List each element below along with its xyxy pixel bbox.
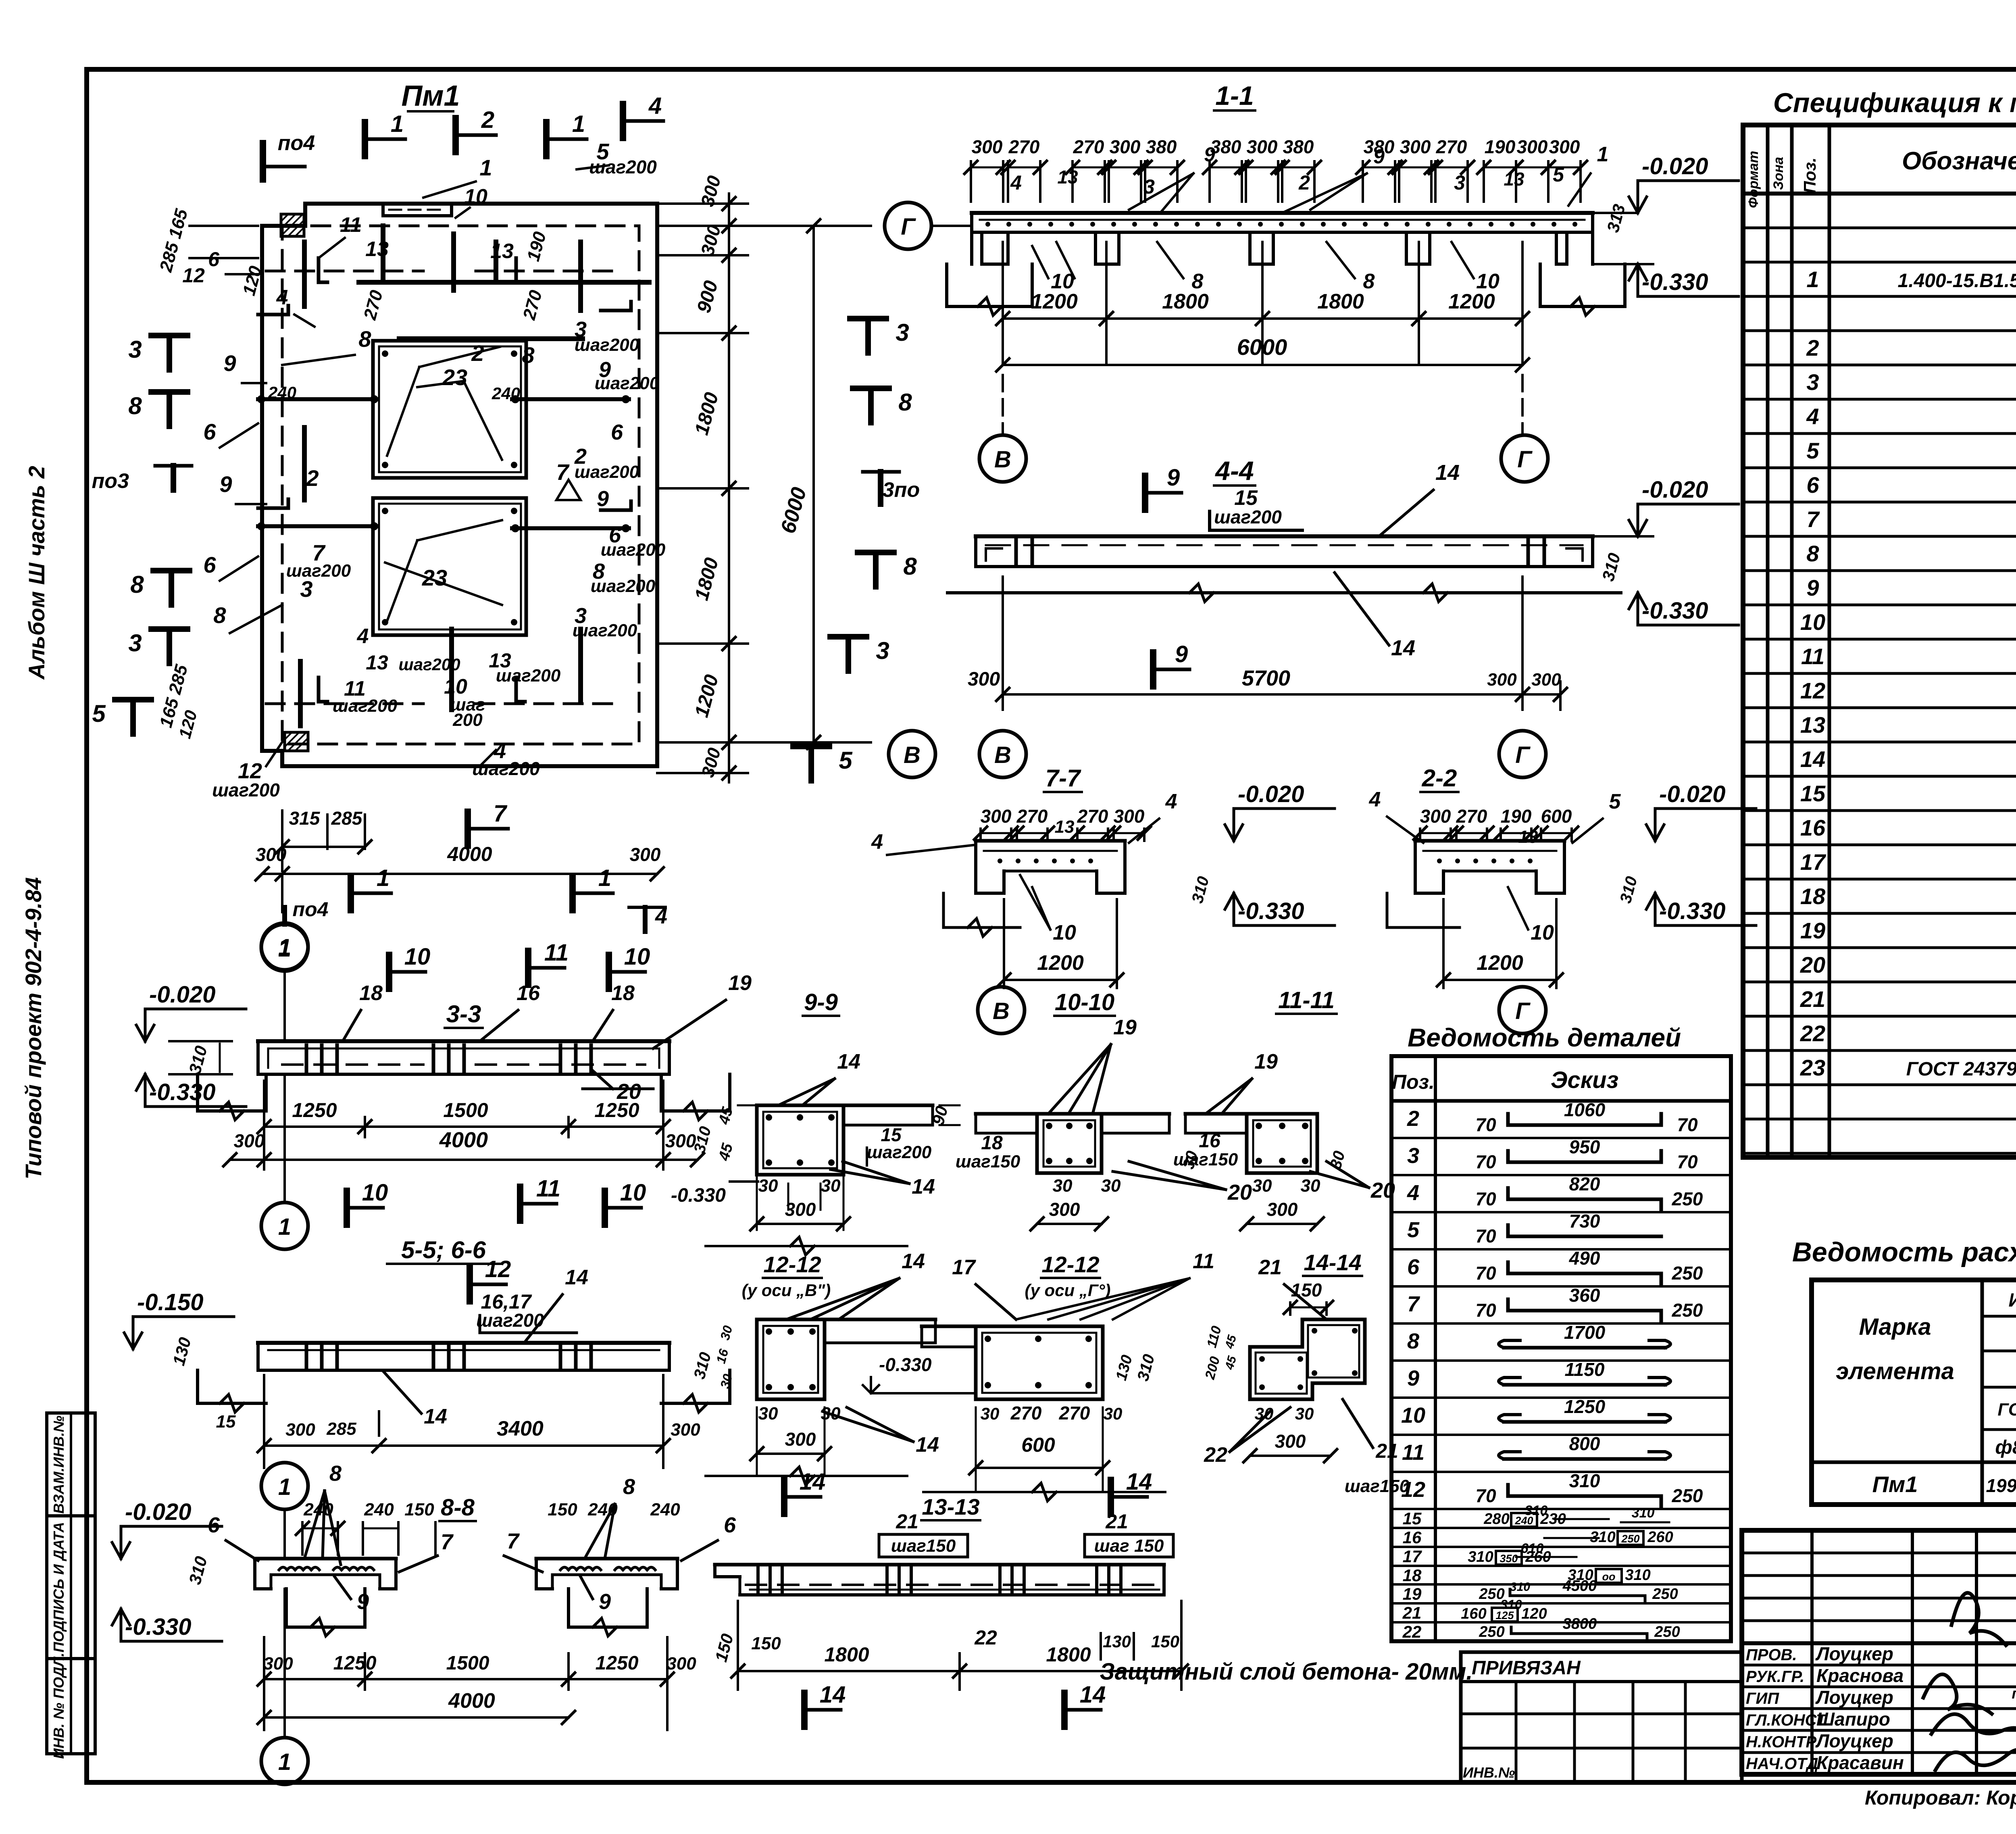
svg-text:3: 3 [1407,1144,1419,1168]
svg-text:1060: 1060 [1564,1099,1606,1120]
svg-text:5: 5 [1609,790,1621,813]
svg-text:ГЛ.КОНСТ: ГЛ.КОНСТ [1746,1711,1827,1729]
svg-text:11: 11 [544,940,569,966]
svg-text:Лоуцкер: Лоуцкер [1815,1643,1893,1664]
svg-text:Г: Г [1515,742,1531,768]
svg-text:13: 13 [1800,712,1825,738]
svg-text:3400: 3400 [497,1417,544,1440]
svg-text:22: 22 [1204,1443,1227,1467]
svg-text:10: 10 [362,1180,388,1206]
svg-text:ПРИВЯЗАН: ПРИВЯЗАН [1472,1657,1581,1679]
svg-text:шаг150: шаг150 [891,1536,956,1556]
svg-text:300: 300 [981,806,1012,827]
svg-text:315: 315 [289,808,321,829]
svg-text:по4: по4 [293,898,329,921]
svg-text:16: 16 [1403,1528,1422,1547]
svg-text:шаг200: шаг200 [286,561,351,581]
svg-text:300: 300 [234,1130,265,1151]
svg-text:6: 6 [611,420,623,444]
svg-text:13: 13 [366,651,388,674]
svg-text:шаг200: шаг200 [575,462,639,482]
svg-text:15: 15 [216,1412,236,1432]
svg-text:310: 310 [1510,1580,1530,1594]
svg-text:14-14: 14-14 [1304,1250,1361,1275]
svg-text:1: 1 [1806,267,1819,292]
svg-text:10: 10 [624,944,650,970]
svg-text:В: В [993,998,1010,1024]
svg-text:10: 10 [1401,1403,1425,1428]
svg-text:200: 200 [452,710,483,730]
svg-text:270: 270 [1456,806,1487,827]
svg-text:4000: 4000 [439,1128,488,1152]
svg-text:19: 19 [1403,1584,1422,1603]
svg-text:8: 8 [329,1461,342,1486]
svg-text:5: 5 [1806,438,1819,463]
svg-text:380: 380 [1283,136,1314,157]
svg-text:285: 285 [326,1419,356,1439]
svg-text:шаг200: шаг200 [1214,506,1282,527]
svg-text:13: 13 [1055,817,1075,837]
svg-text:3: 3 [300,576,312,602]
svg-text:-0.020: -0.020 [1659,781,1725,807]
svg-text:310: 310 [1625,1567,1650,1584]
svg-text:350: 350 [1500,1553,1518,1565]
svg-text:(у оси „Г°): (у оси „Г°) [1025,1281,1111,1300]
svg-text:300: 300 [1275,1431,1306,1452]
svg-text:шаг200: шаг200 [333,696,398,716]
svg-text:70: 70 [1475,1263,1496,1284]
svg-text:19: 19 [728,971,752,995]
svg-text:17: 17 [1403,1547,1422,1566]
svg-text:11: 11 [1193,1250,1214,1273]
svg-text:1800: 1800 [1317,290,1364,313]
svg-text:5: 5 [1407,1218,1420,1242]
svg-text:10: 10 [1053,921,1076,944]
svg-text:21: 21 [1800,986,1825,1012]
svg-text:8: 8 [898,389,912,416]
svg-text:300: 300 [285,1420,315,1440]
svg-text:шаг 150: шаг 150 [1094,1536,1164,1556]
svg-text:14: 14 [837,1050,860,1073]
svg-text:70: 70 [1677,1114,1698,1135]
svg-text:Поз.: Поз. [1800,158,1819,194]
svg-text:820: 820 [1569,1173,1600,1194]
svg-text:9: 9 [1204,143,1215,166]
svg-text:Типовой проект 902-4-9.84: Типовой проект 902-4-9.84 [21,877,46,1179]
svg-text:6: 6 [1806,472,1819,498]
svg-text:шаг200: шаг200 [476,1310,544,1331]
svg-text:260: 260 [1647,1529,1673,1546]
svg-text:Лоуцкер: Лоуцкер [1815,1687,1893,1708]
svg-text:16: 16 [1199,1130,1220,1152]
svg-text:190: 190 [1485,136,1516,157]
svg-text:300: 300 [1110,136,1141,157]
svg-text:10: 10 [620,1180,646,1206]
svg-text:490: 490 [1569,1248,1600,1269]
svg-text:30: 30 [1104,1404,1123,1423]
svg-text:14: 14 [1126,1469,1152,1495]
svg-text:В: В [994,446,1011,473]
svg-text:шаг200: шаг200 [398,655,460,674]
svg-text:Изделия арматурные: Изделия арматурные [2009,1289,2016,1311]
svg-text:2: 2 [471,340,484,366]
svg-text:-0.020: -0.020 [125,1499,191,1525]
svg-text:Лоуцкер: Лоуцкер [1815,1730,1893,1751]
svg-text:4: 4 [1369,788,1381,811]
svg-text:8: 8 [522,342,535,368]
svg-text:30: 30 [821,1176,841,1196]
svg-text:160: 160 [1461,1605,1486,1622]
svg-text:12: 12 [485,1256,511,1282]
svg-text:ПРОВ.: ПРОВ. [1746,1646,1797,1664]
svg-text:Г: Г [1515,998,1531,1024]
svg-text:4000: 4000 [448,1689,495,1713]
svg-text:250: 250 [1672,1188,1703,1209]
svg-text:1: 1 [598,865,611,891]
svg-text:2: 2 [1407,1107,1419,1131]
svg-text:(у оси „В"): (у оси „В") [742,1281,831,1300]
svg-text:2: 2 [481,107,494,133]
svg-text:30: 30 [1252,1176,1272,1196]
svg-text:Ведомость расхода стали на э: Ведомость расхода стали на элемент, кГ [1792,1237,2016,1267]
svg-text:11: 11 [1402,1440,1425,1465]
svg-text:3: 3 [1806,369,1819,395]
svg-text:-0.330: -0.330 [1642,598,1708,624]
svg-text:8: 8 [1363,270,1375,293]
svg-text:30: 30 [758,1176,778,1196]
svg-text:элемента: элемента [1836,1358,1954,1384]
svg-text:1250: 1250 [292,1099,337,1121]
svg-text:20: 20 [1370,1178,1395,1203]
svg-text:300: 300 [263,1654,293,1674]
svg-text:13: 13 [1057,167,1078,188]
svg-text:4: 4 [648,93,662,119]
svg-text:8: 8 [1806,541,1819,566]
svg-text:7-7: 7-7 [1045,765,1081,792]
svg-text:300: 300 [1400,136,1431,157]
svg-text:23: 23 [1800,1055,1825,1080]
svg-text:130: 130 [1103,1632,1131,1651]
svg-text:14: 14 [1080,1682,1106,1708]
svg-text:4-4: 4-4 [1214,456,1254,486]
svg-text:4: 4 [871,830,883,854]
svg-text:9: 9 [1167,465,1180,491]
svg-text:270: 270 [1436,136,1467,157]
svg-text:310: 310 [1590,1529,1615,1546]
svg-text:РУК.ГР.: РУК.ГР. [1746,1668,1804,1686]
svg-text:5: 5 [1553,163,1564,186]
svg-text:18: 18 [1403,1566,1422,1585]
svg-text:1: 1 [479,155,492,180]
svg-text:1.400-15.В1.540-01: 1.400-15.В1.540-01 [1898,270,2016,292]
svg-text:70: 70 [1475,1485,1496,1506]
svg-text:240: 240 [303,1500,333,1519]
svg-text:300: 300 [1517,136,1548,157]
svg-text:ГИП: ГИП [1746,1690,1779,1707]
svg-text:70: 70 [1475,1151,1496,1172]
svg-text:3: 3 [128,629,142,656]
svg-text:4500: 4500 [1562,1578,1597,1594]
svg-text:4: 4 [1010,171,1022,194]
svg-text:280: 280 [1483,1511,1509,1528]
svg-text:-0.330: -0.330 [671,1185,726,1206]
svg-text:шаг150: шаг150 [1173,1150,1238,1169]
svg-text:14: 14 [800,1469,826,1495]
svg-text:3: 3 [128,336,142,363]
svg-text:310: 310 [1569,1470,1600,1491]
svg-text:285: 285 [331,808,363,829]
svg-text:-0.020: -0.020 [149,982,215,1008]
svg-text:6: 6 [203,419,216,444]
svg-text:70: 70 [1677,1151,1698,1172]
svg-text:17: 17 [952,1256,976,1279]
svg-text:12: 12 [1800,678,1825,703]
svg-text:Краснова: Краснова [1816,1665,1904,1686]
svg-text:17: 17 [1800,849,1826,875]
svg-text:30: 30 [1301,1176,1320,1196]
svg-text:125: 125 [1495,1609,1514,1621]
svg-text:300: 300 [972,136,1003,157]
svg-text:23: 23 [442,365,467,390]
svg-text:19: 19 [1800,918,1825,943]
svg-text:14: 14 [1800,746,1825,772]
svg-text:240: 240 [364,1500,394,1519]
svg-text:14: 14 [1391,636,1415,660]
svg-text:7: 7 [441,1530,454,1554]
svg-text:1: 1 [278,1214,291,1240]
svg-text:19: 19 [1254,1050,1278,1073]
svg-text:730: 730 [1569,1211,1600,1232]
svg-text:Копировал: Корецкая: Копировал: Корецкая [1865,1786,2016,1809]
svg-text:9: 9 [1373,145,1385,168]
svg-text:ИНВ.№: ИНВ.№ [1463,1764,1515,1781]
svg-text:240: 240 [492,384,520,403]
svg-text:шаг200: шаг200 [472,758,540,779]
svg-text:8-8: 8-8 [441,1494,475,1521]
svg-text:300: 300 [1549,136,1580,157]
svg-text:9-9: 9-9 [804,989,838,1015]
svg-text:шаг200: шаг200 [212,779,280,800]
svg-text:1250: 1250 [596,1653,639,1674]
svg-text:11: 11 [536,1175,560,1202]
svg-text:300: 300 [1114,806,1145,827]
svg-text:1-1: 1-1 [1215,81,1254,110]
svg-text:ф8: ф8 [1995,1437,2016,1458]
svg-text:Г: Г [1517,446,1533,473]
svg-text:1250: 1250 [594,1099,639,1121]
svg-text:Защитный слой бетона- 20мм.: Защитный слой бетона- 20мм. [1100,1659,1473,1685]
svg-text:13: 13 [490,240,514,263]
svg-text:-0.330: -0.330 [149,1079,215,1105]
svg-text:300: 300 [1487,670,1517,690]
svg-text:ВЗАМ.ИНВ.№: ВЗАМ.ИНВ.№ [50,1415,67,1513]
svg-text:13-13: 13-13 [922,1494,979,1519]
svg-text:9: 9 [599,1590,611,1614]
svg-text:12-12: 12-12 [763,1252,821,1277]
svg-text:250: 250 [1672,1485,1703,1506]
svg-text:1800: 1800 [824,1643,869,1666]
svg-text:230: 230 [1540,1511,1566,1528]
svg-text:22: 22 [1402,1622,1422,1641]
svg-text:300: 300 [630,844,661,865]
svg-text:8: 8 [623,1475,635,1499]
svg-text:В: В [994,742,1011,768]
svg-text:ИНВ. № ПОДЛ.: ИНВ. № ПОДЛ. [50,1653,67,1759]
svg-text:21: 21 [1258,1256,1282,1279]
svg-text:300: 300 [1049,1199,1080,1220]
svg-text:18: 18 [359,982,383,1005]
svg-text:150: 150 [404,1500,434,1519]
svg-text:3: 3 [1454,171,1465,194]
svg-text:1: 1 [391,111,404,137]
svg-text:7: 7 [494,800,508,827]
svg-text:Н.КОНТР: Н.КОНТР [1746,1733,1816,1751]
svg-text:9: 9 [1806,575,1819,600]
svg-text:18: 18 [981,1132,1003,1154]
svg-text:-0.020: -0.020 [1642,477,1708,503]
svg-text:270: 270 [1010,1403,1042,1423]
svg-text:70: 70 [1475,1225,1496,1246]
svg-text:13: 13 [365,238,389,261]
svg-text:8: 8 [1407,1329,1419,1353]
svg-text:3: 3 [896,319,909,346]
svg-text:190: 190 [1501,806,1532,827]
svg-text:-0.330: -0.330 [879,1354,932,1375]
svg-text:3-3: 3-3 [446,1000,481,1027]
svg-text:250: 250 [1654,1624,1680,1640]
svg-text:21: 21 [1105,1510,1128,1533]
svg-text:1500: 1500 [443,1099,488,1121]
svg-text:6: 6 [1407,1255,1420,1279]
svg-text:Марка: Марка [1859,1314,1931,1340]
svg-text:6: 6 [724,1513,736,1537]
svg-text:270: 270 [1016,806,1048,827]
svg-text:310: 310 [1632,1505,1655,1521]
svg-text:Альбом Ш часть 2: Альбом Ш часть 2 [24,466,49,680]
svg-text:22: 22 [1800,1021,1825,1046]
svg-text:1800: 1800 [1162,290,1209,313]
svg-text:Шапиро: Шапиро [1816,1709,1890,1730]
svg-text:-0.330: -0.330 [125,1614,191,1640]
svg-text:800: 800 [1569,1433,1600,1454]
svg-text:4: 4 [1806,404,1819,429]
svg-text:2-2: 2-2 [1422,765,1457,792]
svg-text:6: 6 [208,248,220,271]
svg-text:1200: 1200 [1037,951,1084,975]
svg-text:950: 950 [1569,1136,1600,1157]
svg-text:10: 10 [1800,609,1825,635]
svg-text:3800: 3800 [1563,1615,1597,1632]
svg-text:1: 1 [377,865,389,891]
svg-text:18: 18 [611,982,635,1005]
svg-text:21: 21 [1402,1603,1422,1622]
svg-text:70: 70 [1475,1188,1496,1209]
svg-text:5: 5 [92,700,106,727]
svg-text:шаг200: шаг200 [573,621,637,640]
svg-text:8: 8 [130,571,144,598]
svg-text:1700: 1700 [1564,1322,1606,1343]
svg-text:оо: оо [1602,1571,1616,1583]
svg-text:2: 2 [1806,335,1819,361]
svg-text:30: 30 [1053,1176,1073,1196]
svg-text:ГОСТ 24379.1-80: ГОСТ 24379.1-80 [1906,1059,2016,1080]
svg-text:4000: 4000 [447,843,492,865]
svg-text:19: 19 [1113,1016,1137,1039]
svg-text:250: 250 [1672,1263,1703,1284]
svg-text:15: 15 [1403,1509,1422,1528]
svg-text:1250: 1250 [1564,1396,1606,1417]
svg-text:7: 7 [507,1529,520,1553]
svg-text:-0.330: -0.330 [1642,269,1708,295]
svg-text:13: 13 [1504,169,1524,190]
svg-text:150: 150 [1151,1632,1179,1651]
svg-text:2: 2 [1298,171,1310,194]
svg-text:шаг150: шаг150 [1345,1476,1410,1496]
svg-text:16: 16 [1800,815,1826,840]
svg-text:4: 4 [276,286,288,309]
svg-text:150: 150 [548,1500,577,1519]
svg-text:Поз.: Поз. [1392,1071,1435,1093]
svg-text:600: 600 [1021,1434,1055,1456]
svg-text:-0.020: -0.020 [1642,153,1708,179]
svg-text:11: 11 [1801,644,1824,669]
svg-text:270: 270 [1077,806,1108,827]
svg-text:ГОСТ 5781-82: ГОСТ 5781-82 [1997,1400,2016,1419]
svg-text:240: 240 [1514,1515,1533,1527]
svg-text:4: 4 [1165,790,1177,813]
svg-text:15: 15 [1800,781,1826,806]
svg-text:1150: 1150 [1565,1359,1605,1380]
svg-text:10: 10 [464,185,487,208]
svg-text:по3: по3 [92,469,129,493]
svg-text:Эскиз: Эскиз [1551,1067,1618,1093]
svg-text:9: 9 [597,487,609,511]
svg-text:14: 14 [565,1266,588,1289]
svg-text:21: 21 [896,1510,918,1533]
svg-text:шаг200: шаг200 [496,666,561,686]
svg-text:6: 6 [203,552,216,577]
svg-text:4: 4 [357,625,369,648]
svg-text:шаг200: шаг200 [591,576,656,596]
svg-text:1200: 1200 [1448,290,1495,313]
svg-text:11-11: 11-11 [1278,987,1335,1013]
svg-text:1: 1 [278,1474,291,1500]
svg-text:30: 30 [1295,1404,1314,1423]
svg-text:шаг200: шаг200 [867,1142,932,1162]
svg-text:1: 1 [572,111,585,137]
svg-text:14: 14 [820,1682,846,1708]
svg-text:10: 10 [404,944,431,970]
svg-text:300: 300 [671,1420,700,1440]
svg-text:12: 12 [182,264,205,287]
svg-text:240: 240 [268,383,296,402]
svg-text:20: 20 [1800,952,1825,977]
svg-text:7: 7 [1806,506,1820,532]
svg-text:300: 300 [785,1429,816,1450]
svg-text:шаг150: шаг150 [956,1152,1020,1171]
svg-text:14: 14 [424,1405,447,1428]
svg-text:260: 260 [1525,1548,1551,1565]
svg-text:70: 70 [1475,1114,1496,1135]
svg-text:270: 270 [1059,1403,1090,1423]
svg-text:Пм1: Пм1 [401,80,460,112]
svg-text:600: 600 [1541,806,1572,827]
svg-text:30: 30 [758,1404,778,1423]
svg-text:5: 5 [839,747,853,774]
svg-text:250: 250 [1621,1533,1639,1545]
svg-text:Ведомость деталей: Ведомость деталей [1408,1023,1681,1052]
svg-text:14: 14 [916,1433,939,1457]
